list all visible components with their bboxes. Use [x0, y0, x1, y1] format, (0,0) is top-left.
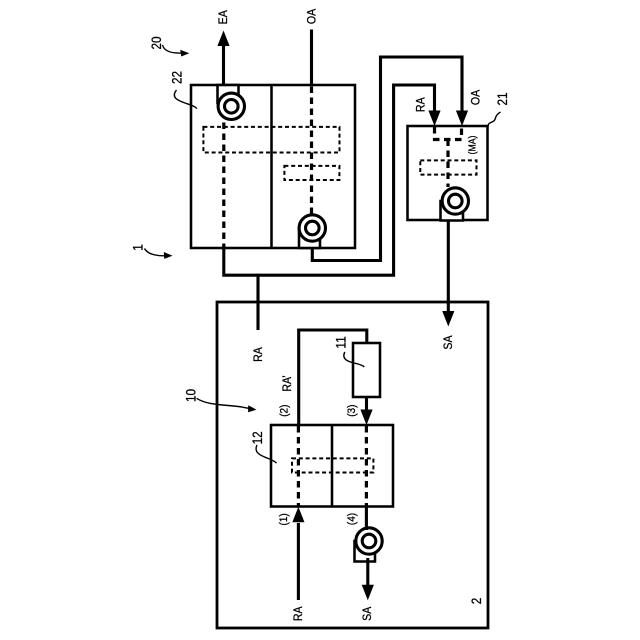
- dashed flow merge in box 21: [435, 127, 462, 140]
- dashed flow (2) column in box 12: [297, 426, 300, 506]
- wire (3) from box 11 to box 12: [365, 397, 368, 411]
- svg-text:21: 21: [495, 92, 510, 105]
- dashed element rect A in box 22: [203, 127, 339, 153]
- arrowhead SA bottom: [362, 585, 374, 601]
- svg-text:2: 2: [469, 598, 484, 605]
- wire OA path from box22 fan to box 21: [312, 57, 462, 261]
- arrowhead OA into box 21: [456, 111, 468, 127]
- wire SA from box 21 into room: [447, 220, 450, 312]
- svg-text:OA: OA: [306, 8, 319, 24]
- svg-text:10: 10: [184, 389, 199, 402]
- box 22 (heat exchange ventilator): [191, 85, 355, 248]
- wire RA' path from box12 (2) to box 11: [299, 330, 367, 425]
- fan OA (box 22 bottom-right blower): [299, 215, 325, 248]
- svg-text:(MA): (MA): [467, 136, 478, 155]
- box 12 (apparatus in room): [271, 425, 393, 507]
- arrowhead (3): [360, 410, 372, 426]
- box 21 (air conditioner): [408, 126, 488, 220]
- leader 12: [256, 445, 276, 463]
- svg-text:11: 11: [334, 336, 349, 348]
- svg-text:(1): (1): [277, 513, 290, 525]
- svg-text:SA: SA: [361, 606, 374, 620]
- leader 22: [174, 90, 196, 109]
- arrowhead EA: [217, 31, 229, 47]
- wire RA (1) into box 12: [297, 523, 300, 600]
- leader 11: [344, 352, 364, 367]
- leader arrow 10: [197, 398, 257, 412]
- arrowhead (1): [292, 507, 304, 523]
- svg-text:22: 22: [170, 71, 185, 84]
- box 2 (room): [217, 302, 488, 628]
- wire RA branch into room: [256, 274, 259, 330]
- leader 21: [488, 112, 500, 126]
- svg-text:EA: EA: [217, 10, 230, 24]
- svg-text:RA: RA: [252, 347, 265, 362]
- dashed flow (3) column in box 12: [365, 426, 368, 506]
- fan EA (box 22 top-left blower): [218, 85, 245, 120]
- wire RA path from box22 bottom to box 21: [224, 85, 435, 275]
- svg-text:12: 12: [250, 431, 265, 444]
- leader arrow 20: [163, 45, 190, 57]
- box 11 (component): [353, 343, 380, 397]
- dashed element rect in box 21: [420, 160, 476, 174]
- fan (4) (box 2 blower): [355, 528, 383, 562]
- svg-text:(3): (3): [346, 405, 359, 417]
- dashed flow EA column in box 22: [222, 123, 225, 248]
- dashed flow MA down to fan in box 21: [446, 140, 449, 188]
- arrowhead SA into room: [442, 311, 454, 327]
- wire OA intake (top): [310, 30, 313, 86]
- dashed flow OA column in box 22: [310, 87, 313, 214]
- wire EA exhaust shaft: [222, 45, 225, 85]
- dashed element rect B in box 22: [284, 166, 339, 180]
- svg-text:RA’: RA’: [281, 375, 294, 391]
- svg-text:OA: OA: [470, 89, 483, 105]
- fan SA (box 21 blower): [441, 188, 469, 221]
- svg-text:(2): (2): [278, 405, 291, 417]
- leader arrow 1: [145, 249, 173, 259]
- wire SA out of fan (4): [366, 558, 369, 586]
- svg-text:SA: SA: [442, 335, 455, 349]
- svg-text:(4): (4): [346, 513, 359, 525]
- svg-text:RA: RA: [415, 97, 428, 112]
- dashed element rect in box 12: [292, 458, 373, 472]
- arrowhead RA into box 21: [428, 111, 440, 127]
- svg-text:1: 1: [131, 244, 146, 251]
- svg-text:20: 20: [149, 36, 164, 49]
- svg-text:RA: RA: [292, 606, 305, 621]
- wire (4) from box 12 to fan: [365, 507, 368, 530]
